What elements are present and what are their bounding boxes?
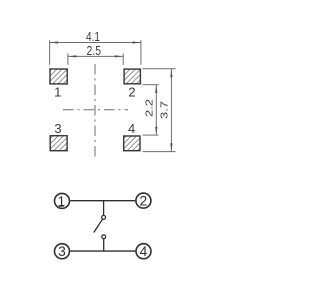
dimension 2.2: [143, 85, 159, 135]
svg-text:3.7: 3.7: [159, 101, 170, 119]
switch lever: [94, 219, 103, 232]
wire bottom (pin3 to pin4): [70, 250, 135, 252]
switch stub bottom: [103, 239, 105, 251]
pad 2: [124, 69, 140, 84]
svg-text:2.5: 2.5: [87, 43, 102, 58]
vertical centerline: [94, 64, 96, 158]
svg-text:3: 3: [54, 121, 61, 136]
wire top (pin1 to pin2): [70, 200, 135, 202]
switch stub top: [103, 201, 105, 216]
svg-text:4.1: 4.1: [86, 29, 100, 44]
svg-text:4: 4: [140, 244, 148, 259]
svg-text:2: 2: [128, 85, 135, 100]
dimension 3.7: [143, 69, 176, 152]
schematic pin circle 2: [136, 193, 151, 208]
svg-text:1: 1: [54, 85, 61, 100]
dimension 2.5: [68, 53, 123, 64]
pad 1: [50, 69, 67, 84]
dimension 4.1: [50, 40, 141, 65]
switch contact bottom: [102, 235, 106, 239]
schematic pin circle 4: [136, 244, 151, 259]
svg-text:2.2: 2.2: [144, 99, 155, 117]
switch contact top: [102, 215, 106, 219]
schematic pin circle 1: [55, 193, 70, 208]
horizontal centerline: [63, 109, 128, 111]
svg-text:4: 4: [128, 121, 135, 136]
schematic pin circle 3: [55, 244, 70, 259]
svg-text:2: 2: [140, 194, 148, 209]
pad 3: [50, 136, 67, 151]
pad 4: [124, 136, 140, 151]
svg-text:3: 3: [58, 244, 66, 259]
